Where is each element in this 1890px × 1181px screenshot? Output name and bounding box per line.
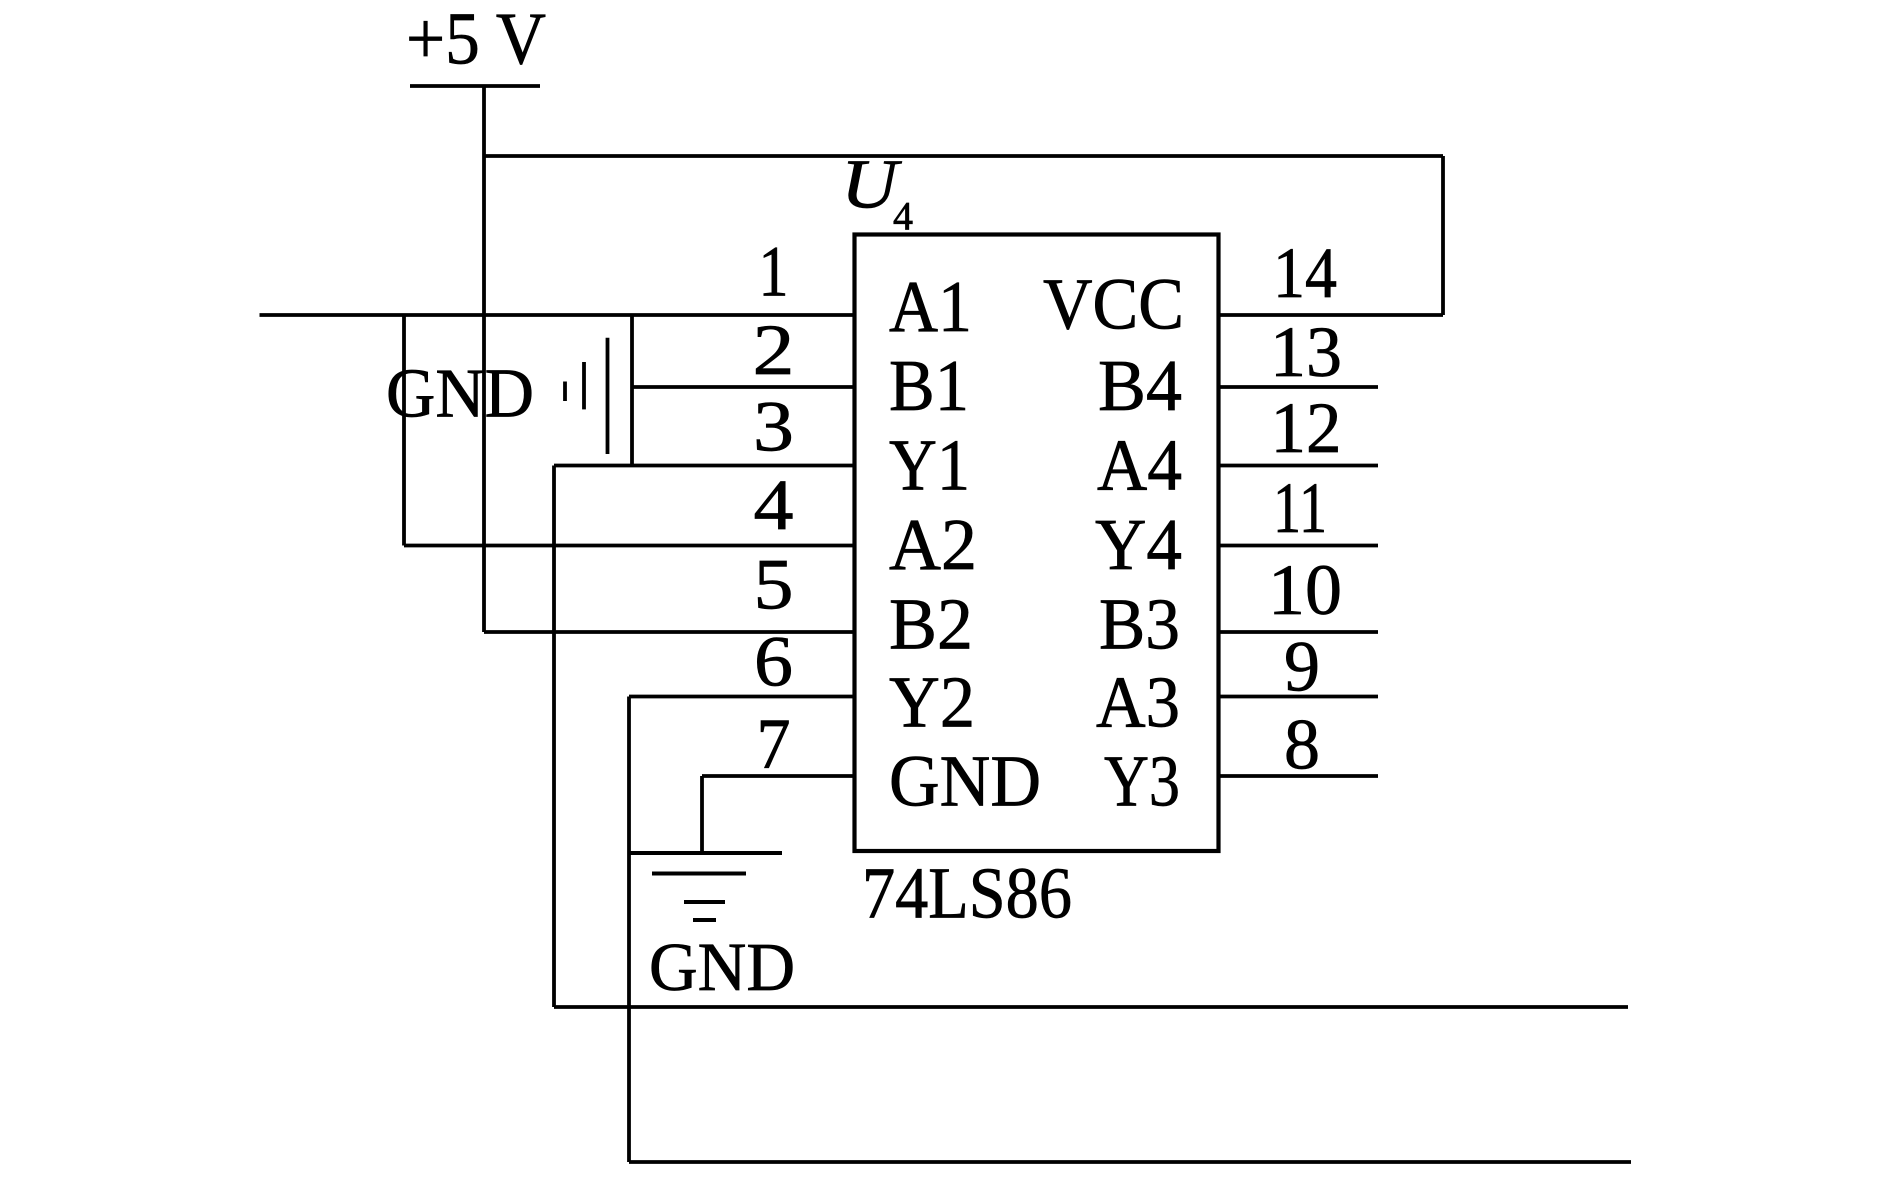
svg-text:B3: B3	[1099, 584, 1180, 665]
wire bottom rail Y1	[554, 1005, 1628, 1009]
ground symbol bottom	[629, 853, 782, 920]
wire pin6 vertical drop	[627, 697, 631, 1163]
wire VCC right vertical	[1441, 156, 1445, 315]
wire pin8	[1217, 774, 1379, 778]
wire pin1	[260, 313, 857, 317]
svg-text:A1: A1	[889, 266, 972, 347]
svg-text:B2: B2	[889, 584, 973, 665]
wire pin2	[632, 385, 856, 389]
wire pin4	[404, 544, 856, 548]
svg-text:GND: GND	[386, 356, 534, 433]
svg-text:2: 2	[753, 310, 795, 390]
wire pin7 vertical drop	[700, 776, 704, 853]
wire pin3 vertical drop	[552, 466, 556, 1008]
svg-text:8: 8	[1284, 705, 1320, 785]
svg-text:11: 11	[1273, 468, 1327, 548]
svg-text:B1: B1	[889, 345, 969, 426]
wire pin6	[629, 695, 855, 699]
svg-text:Y2: Y2	[889, 662, 975, 743]
wire pin12	[1217, 464, 1379, 468]
power +5V bar	[410, 84, 540, 88]
ground symbol left (rotated)	[565, 338, 608, 454]
svg-text:13: 13	[1270, 312, 1342, 392]
svg-text:14: 14	[1273, 233, 1337, 313]
svg-text:GND: GND	[889, 741, 1041, 822]
svg-text:4: 4	[754, 465, 794, 545]
svg-text:+5 V: +5 V	[406, 0, 546, 80]
wire pin13	[1217, 385, 1379, 389]
svg-text:5: 5	[754, 545, 794, 625]
svg-text:A2: A2	[889, 504, 977, 585]
svg-text:Y1: Y1	[889, 425, 970, 506]
svg-text:10: 10	[1268, 550, 1342, 630]
svg-text:A3: A3	[1096, 662, 1180, 743]
svg-text:GND: GND	[649, 929, 795, 1005]
wire VCC top branch	[484, 154, 1443, 158]
svg-text:B4: B4	[1098, 345, 1182, 426]
svg-text:1: 1	[759, 232, 789, 312]
wire pin5	[484, 630, 856, 634]
wire pin10	[1217, 630, 1379, 634]
wire bottom rail Y2	[629, 1160, 1631, 1164]
wire pin14	[1217, 313, 1444, 317]
svg-text:4: 4	[893, 193, 913, 238]
wire vertical node A left	[402, 315, 406, 546]
wire pin3	[554, 464, 856, 468]
wire vertical GND stub	[630, 315, 634, 466]
svg-text:12: 12	[1271, 388, 1342, 468]
svg-text:7: 7	[757, 704, 791, 784]
svg-text:A4: A4	[1097, 425, 1182, 506]
wire pin7	[702, 774, 856, 778]
svg-text:9: 9	[1284, 627, 1320, 707]
wire pin11	[1217, 544, 1379, 548]
svg-text:Y4: Y4	[1095, 504, 1182, 585]
svg-text:6: 6	[754, 622, 793, 702]
IC body U4 74LS86	[855, 235, 1219, 852]
svg-text:74LS86: 74LS86	[862, 853, 1072, 934]
wire pin9	[1217, 695, 1379, 699]
wire +5V vertical rail	[482, 86, 486, 632]
svg-text:VCC: VCC	[1043, 264, 1184, 345]
svg-text:Y3: Y3	[1104, 741, 1180, 822]
svg-text:3: 3	[753, 387, 794, 467]
